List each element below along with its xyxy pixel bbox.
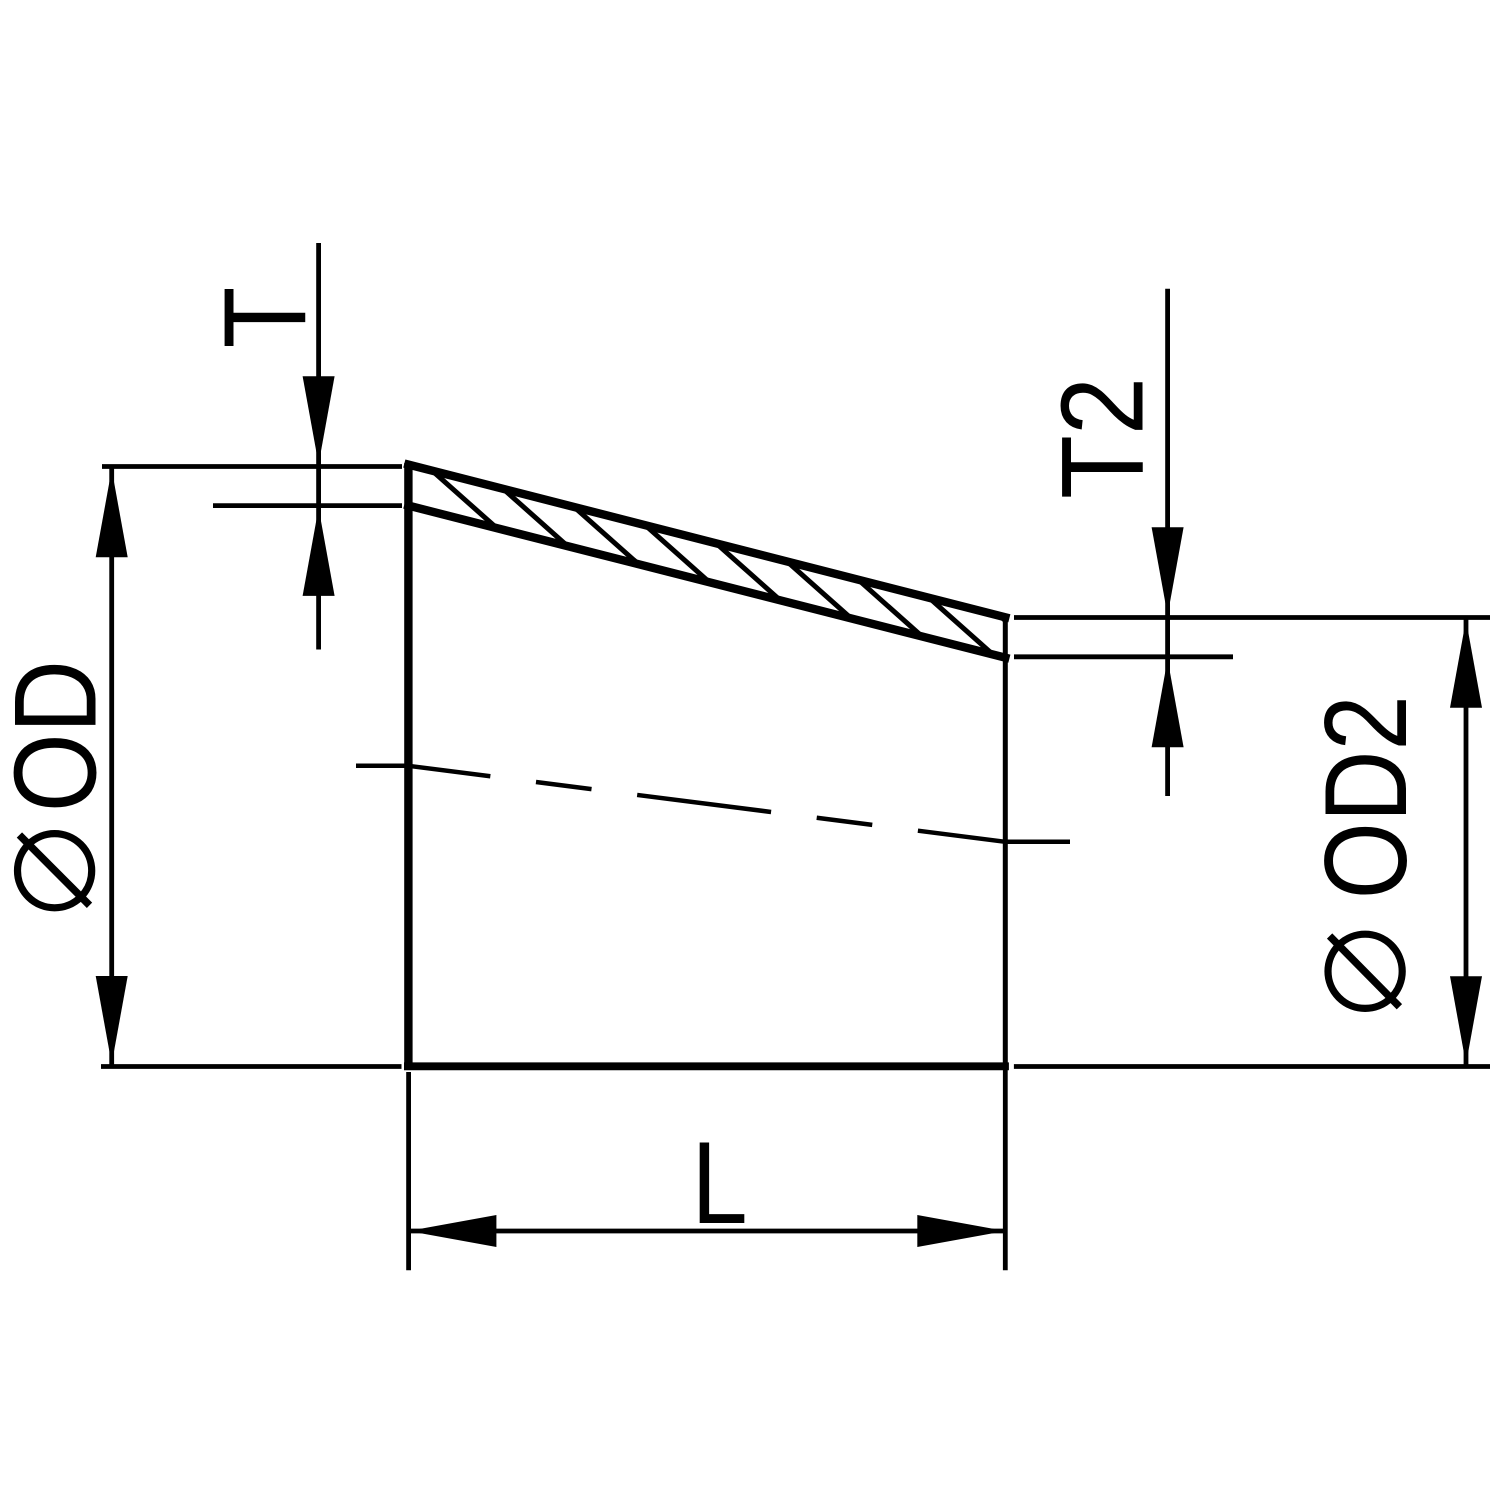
svg-text:T2: T2 (1037, 377, 1168, 499)
svg-text:T: T (199, 287, 330, 349)
svg-text:OD: OD (0, 660, 120, 812)
svg-text:OD2: OD2 (1300, 695, 1431, 899)
svg-text:L: L (691, 1117, 747, 1248)
